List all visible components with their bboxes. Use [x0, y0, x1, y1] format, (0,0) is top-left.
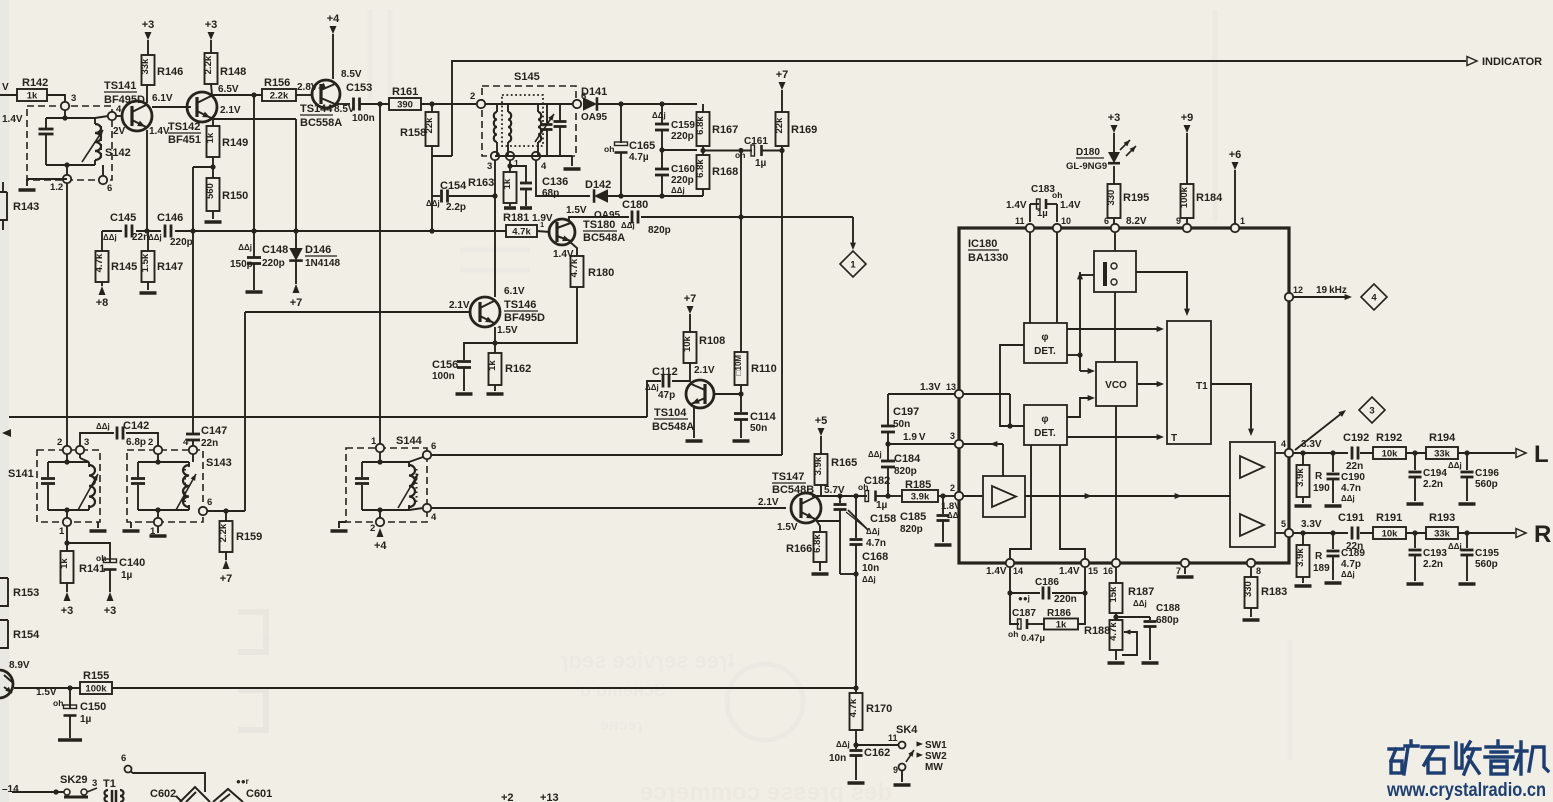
svg-text:1k: 1k [205, 132, 216, 143]
svg-text:R154: R154 [13, 629, 40, 641]
wire TS142 base rail to D146 [295, 119, 297, 250]
label C158 [848, 510, 868, 530]
svg-text:2.1V: 2.1V [449, 300, 470, 311]
svg-text:3: 3 [950, 431, 955, 441]
svg-text:22n: 22n [201, 438, 218, 449]
ground S143 pin1 [150, 526, 167, 536]
svg-text:8: 8 [1256, 566, 1261, 576]
wire pin6 to indicator [1114, 232, 1116, 251]
node output L [1516, 441, 1549, 468]
svg-text:T1: T1 [1196, 381, 1208, 392]
svg-text:ΔΔj: ΔΔj [652, 111, 666, 120]
svg-text:+7: +7 [684, 293, 697, 305]
svg-text:C168: C168 [862, 551, 888, 563]
svg-text:2: 2 [370, 523, 375, 534]
power +3 below C140 [104, 592, 117, 617]
svg-text:S141: S141 [8, 468, 34, 480]
power +3 D180 [1108, 112, 1121, 153]
svg-text:C147: C147 [201, 425, 227, 437]
wire S143 pin6 to riser [207, 508, 245, 513]
svg-text:ΔΔj: ΔΔj [671, 186, 685, 195]
svg-text:4: 4 [541, 161, 547, 172]
wire C168 down to R170 [853, 574, 858, 693]
node S141 pin 1 [59, 518, 71, 537]
resistor R191 [1373, 512, 1406, 540]
svg-text:R: R [1534, 521, 1551, 548]
svg-text:2: 2 [57, 437, 62, 448]
node pin 4 ic [1281, 439, 1293, 457]
svg-text:4.7n: 4.7n [1341, 483, 1361, 494]
node S145 pin 2 [470, 91, 485, 108]
svg-text:1k: 1k [487, 360, 498, 371]
wire pin13 line [888, 393, 959, 395]
node S144 pin 2 [370, 518, 384, 534]
svg-text:R145: R145 [111, 261, 137, 273]
resistor R194 [1426, 432, 1458, 460]
svg-text:2: 2 [470, 91, 475, 102]
capacitor C184 [868, 441, 921, 496]
svg-text:TS142: TS142 [168, 121, 200, 133]
label 1.4V pin10 [1060, 200, 1081, 211]
svg-text:560p: 560p [1475, 479, 1498, 490]
svg-text:R108: R108 [699, 335, 725, 347]
wire indicator to pin9 column [1136, 272, 1190, 316]
svg-text:SK29: SK29 [60, 774, 88, 786]
resistor R142 [17, 77, 48, 102]
node pin 14 [986, 559, 1023, 577]
svg-text:1: 1 [59, 526, 65, 537]
svg-text:R165: R165 [831, 457, 857, 469]
wire L line [1293, 450, 1515, 455]
wire vco bottom to pin16 [1115, 406, 1117, 559]
switch SK29 [60, 774, 97, 797]
capacitor C192 [1343, 432, 1369, 472]
capacitor C159 [652, 104, 695, 150]
svg-text:220p: 220p [671, 131, 694, 142]
power +3 feeding R146 [142, 19, 155, 55]
power +8 below R145 [96, 282, 109, 309]
wire det2 to vco [1067, 395, 1095, 417]
svg-text:BC558A: BC558A [300, 117, 342, 129]
svg-text:5: 5 [1281, 519, 1286, 529]
svg-text:DET.: DET. [1034, 346, 1056, 357]
svg-text:10k: 10k [682, 335, 693, 352]
label 6.1V TS141 [152, 93, 173, 104]
svg-text:12: 12 [1293, 285, 1303, 295]
svg-text:1µ: 1µ [121, 570, 133, 581]
svg-text:●●r: ●●r [236, 777, 249, 786]
svg-text:R168: R168 [712, 166, 738, 178]
svg-text:22n: 22n [1346, 541, 1363, 552]
svg-text:6: 6 [207, 497, 212, 508]
capacitor C112 [645, 366, 690, 401]
svg-text:R163: R163 [468, 177, 494, 189]
svg-text:330: 330 [1243, 581, 1254, 597]
svg-text:3.9k: 3.9k [911, 492, 930, 503]
wire TS180 collector line [569, 217, 629, 222]
resistor R189 [1295, 533, 1331, 586]
svg-text:C140: C140 [119, 557, 145, 569]
svg-text:2.2n: 2.2n [1423, 559, 1443, 570]
svg-text:R148: R148 [220, 66, 246, 78]
node pin 8 [1247, 559, 1261, 576]
svg-text:+4: +4 [374, 540, 387, 552]
wire TS180 emitter [570, 242, 577, 256]
resistor R163 [468, 160, 517, 208]
wire S145 top [485, 103, 573, 105]
wire indicator left arrow [1077, 272, 1095, 374]
shield box S143 [127, 450, 232, 522]
svg-text:1: 1 [1240, 216, 1245, 226]
svg-text:7: 7 [1176, 566, 1181, 576]
svg-text:C145: C145 [110, 212, 136, 224]
label pin5 3.3V [1301, 519, 1322, 530]
wire R108 to TS104 [689, 363, 691, 382]
wire T1 out to amps [1211, 384, 1254, 436]
transistor TS141 [104, 80, 152, 131]
svg-text:+7: +7 [290, 297, 303, 309]
svg-text:ΔΔj: ΔΔj [1448, 461, 1462, 470]
capacitor C186 [1010, 567, 1085, 605]
node pin 15 [1059, 559, 1098, 577]
node S142 pin 6 [99, 165, 112, 194]
wire S144 pin4 [409, 508, 786, 510]
transistor TS104 [652, 380, 714, 433]
wire node down to S144 pin1 [379, 104, 381, 444]
wire S141 pin1 down [64, 526, 69, 546]
coil in S141 [78, 454, 98, 510]
svg-text:2.2k: 2.2k [203, 55, 214, 74]
svg-text:C185: C185 [900, 511, 926, 523]
svg-text:1µ: 1µ [80, 714, 92, 725]
svg-text:100n: 100n [432, 371, 455, 382]
wire R156 to TS144 base [296, 94, 312, 96]
svg-text:15: 15 [1088, 566, 1098, 576]
wire pin13 to det2 [959, 394, 1013, 429]
svg-text:C187: C187 [1012, 608, 1036, 619]
capacitor C190 [1325, 453, 1366, 506]
svg-text:2.2k: 2.2k [218, 523, 229, 542]
wire R line [1293, 530, 1515, 535]
svg-text:47p: 47p [658, 390, 675, 401]
svg-text:ΔΔj: ΔΔj [836, 740, 850, 749]
wire TS141 collector [146, 85, 148, 103]
svg-text:R191: R191 [1376, 512, 1402, 524]
wire pin3 column to TS146 [492, 160, 497, 297]
IC180 box [959, 228, 1289, 563]
svg-text:+7: +7 [220, 573, 233, 585]
svg-text:1µ: 1µ [1037, 208, 1048, 219]
capacitor C147 [186, 425, 227, 449]
svg-text:ΔΔj: ΔΔj [96, 422, 110, 431]
resistor R162 [487, 343, 532, 394]
node S142 pin 4 [95, 104, 122, 120]
wire amp to output amps [1025, 493, 1230, 499]
svg-text:1.5V: 1.5V [777, 522, 798, 533]
svg-text:C148: C148 [262, 244, 288, 256]
svg-text:4.7k: 4.7k [569, 258, 580, 277]
svg-text:1.2: 1.2 [50, 182, 63, 193]
svg-text:C197: C197 [893, 406, 919, 418]
power +5 R165 [815, 415, 828, 454]
svg-text:V: V [2, 82, 9, 93]
power +4 feeding TS144 [327, 13, 340, 79]
svg-text:1µ: 1µ [876, 500, 888, 511]
wire pin4 to diamond3 [1295, 410, 1346, 450]
wire R142 to S142 pin3 [47, 95, 65, 102]
capacitor C188 [1133, 599, 1180, 663]
wire SK29 row [12, 789, 64, 794]
resistor R166 [786, 532, 829, 574]
wire TS146 emitter node [464, 327, 498, 360]
svg-text:T: T [1171, 433, 1177, 444]
wire C112 to y417 line [647, 381, 661, 417]
wire TS146 base riser [244, 312, 246, 511]
label 2.8V [297, 82, 318, 93]
capacitor C158 labels [866, 513, 896, 549]
diode D180 LED [1066, 140, 1136, 184]
amplifier input [983, 476, 1025, 517]
svg-text:ΔΔj: ΔΔj [1341, 494, 1355, 503]
node output R [1516, 521, 1551, 548]
capacitor in S141 [41, 454, 89, 518]
node pin 16 [1103, 559, 1120, 576]
svg-text:150p: 150p [230, 259, 253, 270]
capacitor C197 [881, 394, 919, 444]
svg-text:C602: C602 [150, 788, 176, 800]
label 2.1V TS147 [758, 497, 779, 508]
node diamond 3 [1359, 397, 1385, 423]
svg-text:BF495D: BF495D [504, 312, 545, 324]
resistor R145 [94, 231, 137, 282]
block T1 [1167, 321, 1211, 444]
svg-text:R153: R153 [13, 587, 39, 599]
labels SW1 SW2 MW [917, 740, 948, 773]
svg-text:–14: –14 [2, 784, 19, 795]
svg-text:6: 6 [431, 441, 436, 452]
svg-text:S142: S142 [105, 147, 131, 159]
ground R150 [205, 211, 222, 222]
capacitor C195 [1448, 533, 1499, 584]
svg-text:BC548A: BC548A [652, 421, 694, 433]
resistor R154 partial [0, 620, 40, 648]
svg-text:C184: C184 [894, 453, 921, 465]
resistor R159 [218, 511, 262, 552]
wire R169 node down to S144 line [781, 151, 783, 456]
svg-text:●●j: ●●j [1018, 594, 1030, 603]
svg-text:22n: 22n [1346, 461, 1363, 472]
wire S142 pin6 to S141 pin2 [66, 183, 68, 446]
svg-text:1N4148: 1N4148 [305, 258, 340, 269]
node S141 pin 2 [57, 437, 71, 454]
svg-text:□10M: □10M [734, 355, 743, 376]
resistor R169 [774, 112, 817, 151]
resistor R193 [1426, 512, 1458, 540]
label 1.5V left transistor [36, 687, 57, 698]
wire node to C147 column [192, 167, 194, 429]
svg-text:1: 1 [371, 436, 377, 447]
svg-text:1: 1 [540, 220, 544, 229]
wire R161 to S145 pin2 [421, 101, 477, 106]
capacitor C168 [840, 496, 888, 584]
node S143 pin 6 [199, 497, 212, 515]
svg-text:R: R [1315, 471, 1323, 482]
capacitor C162 [829, 730, 890, 783]
resistor R156 [262, 77, 296, 102]
svg-text:4.7p: 4.7p [1341, 559, 1361, 570]
label 1.4V TS141 [149, 126, 170, 137]
svg-text:D141: D141 [581, 86, 607, 98]
resistor R165 [813, 454, 857, 485]
label 8.5V TS144 top [341, 69, 362, 80]
ground S145 [564, 156, 581, 169]
svg-text:6.8k: 6.8k [695, 116, 706, 135]
shield box S144 [346, 435, 427, 522]
svg-text:BC548A: BC548A [583, 232, 625, 244]
phase detector 2 [1024, 405, 1067, 445]
label pin4 3.3V [1301, 439, 1322, 450]
svg-text:BF495D: BF495D [104, 94, 145, 106]
svg-text:R141: R141 [79, 563, 105, 575]
svg-text:3: 3 [1369, 406, 1374, 417]
svg-text:4: 4 [1281, 439, 1286, 449]
svg-text:390: 390 [397, 100, 413, 111]
wire pin10 to det1 [1056, 232, 1058, 323]
wire D142 rail [605, 193, 703, 198]
capacitor C165 [604, 104, 655, 196]
svg-text:R181: R181 [503, 212, 529, 224]
svg-text:2.2k: 2.2k [270, 91, 289, 102]
svg-text:1µ: 1µ [755, 158, 767, 169]
node S143 pin 2 [148, 437, 162, 454]
block VCO [1096, 362, 1137, 406]
label +13 [540, 792, 559, 802]
capacitor C185 [900, 496, 961, 545]
svg-text:R169: R169 [791, 124, 817, 136]
wire TS144 collector to C153 [337, 103, 350, 105]
wire det2 bottom right [1060, 445, 1085, 559]
svg-text:4: 4 [1371, 293, 1377, 304]
svg-text:ΔΔj: ΔΔj [103, 233, 117, 242]
svg-text:+3: +3 [205, 19, 218, 31]
node S145 pin 4 [532, 152, 547, 172]
svg-text:+2: +2 [501, 792, 514, 802]
wire amp to pin5 [1275, 532, 1285, 534]
wire TS146 base [245, 311, 470, 313]
svg-text:+3: +3 [142, 19, 155, 31]
oscillator coil S145 [538, 104, 541, 156]
svg-text:φ: φ [1041, 414, 1048, 425]
transformer primary S145 [485, 104, 497, 156]
svg-text:C195: C195 [1475, 548, 1499, 559]
node S144 pin 6 [423, 441, 436, 459]
svg-text:6.8k: 6.8k [695, 159, 706, 178]
svg-text:oh: oh [53, 698, 63, 708]
variable capacitor S145 [535, 104, 554, 156]
wire TS141 to TS142 base [152, 106, 191, 108]
svg-text:680p: 680p [1156, 615, 1179, 626]
svg-text:220p: 220p [262, 258, 285, 269]
power +3 below R141 [61, 583, 74, 617]
node R187 R188 [1113, 613, 1150, 620]
resistor R149 [205, 126, 248, 157]
svg-text:2.1V: 2.1V [220, 105, 241, 116]
svg-text:R156: R156 [264, 77, 290, 89]
svg-text:DET.: DET. [1034, 428, 1056, 439]
label IC180 [968, 238, 1008, 264]
ground S143 left [123, 522, 140, 531]
svg-text:C146: C146 [157, 212, 183, 224]
label S142 [105, 147, 131, 159]
svg-text:10: 10 [1061, 216, 1071, 226]
svg-text:C160: C160 [671, 164, 695, 175]
svg-text:MW: MW [925, 762, 943, 773]
capacitor C601 [213, 777, 272, 802]
resistor R195 [1106, 184, 1149, 224]
svg-text:6.8k: 6.8k [812, 534, 823, 553]
shield box S141 [8, 450, 100, 522]
power +4 below S144 [374, 528, 387, 552]
resistor R183 [1243, 567, 1288, 620]
svg-text:ΔΔj: ΔΔj [426, 199, 440, 208]
svg-text:1.4V: 1.4V [986, 566, 1007, 577]
node S143 pin 4 [183, 437, 197, 454]
svg-text:C196: C196 [1475, 468, 1499, 479]
tuning coil in S142 [82, 118, 103, 165]
svg-text:8.2V: 8.2V [1126, 216, 1147, 227]
node pin 6 [1104, 216, 1147, 232]
svg-text:2.2p: 2.2p [446, 202, 466, 213]
svg-text:100n: 100n [352, 113, 375, 124]
svg-text:19 kHz: 19 kHz [1316, 285, 1347, 296]
resistor R141 [59, 543, 105, 583]
svg-text:oh: oh [96, 553, 106, 563]
label +2 [501, 792, 514, 802]
svg-text:C112: C112 [652, 366, 678, 378]
wire TS142 emitter [213, 119, 296, 126]
svg-text:D146: D146 [305, 244, 331, 256]
capacitor C180 [621, 199, 671, 236]
svg-text:560: 560 [205, 183, 216, 199]
svg-text:8.5V: 8.5V [341, 69, 362, 80]
svg-text:C182: C182 [864, 475, 890, 487]
node R167 R168 mid [700, 146, 752, 155]
svg-text:D142: D142 [585, 179, 611, 191]
svg-text:L: L [1534, 441, 1549, 468]
svg-text:330: 330 [1106, 190, 1117, 206]
svg-text:C114: C114 [750, 411, 777, 423]
svg-text:VCO: VCO [1105, 380, 1127, 391]
svg-text:33k: 33k [1434, 449, 1451, 460]
svg-text:8.9V: 8.9V [9, 660, 30, 671]
svg-text:IC180: IC180 [968, 238, 997, 250]
svg-text:C142: C142 [123, 420, 149, 432]
svg-text:13: 13 [946, 382, 956, 392]
svg-text:1.3V: 1.3V [920, 382, 941, 393]
capacitor C150x C140 [67, 543, 145, 592]
svg-text:9: 9 [893, 765, 898, 775]
svg-text:+3: +3 [1108, 112, 1121, 124]
svg-text:R155: R155 [83, 670, 109, 682]
svg-text:1: 1 [850, 260, 856, 271]
svg-text:R193: R193 [1429, 512, 1455, 524]
svg-text:10n: 10n [829, 753, 846, 764]
svg-text:11: 11 [1015, 216, 1025, 226]
wire S145 bottom [495, 155, 572, 157]
svg-text:820p: 820p [894, 466, 917, 477]
wire R158 bottom node [432, 146, 452, 231]
resistor R186 [1044, 593, 1085, 631]
